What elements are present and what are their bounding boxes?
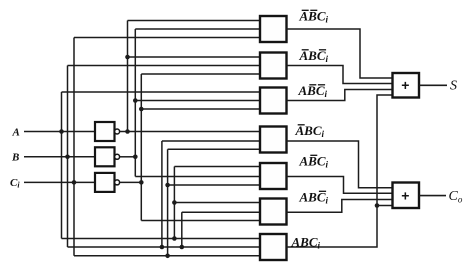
wire C upper branch to G1 bbox=[74, 37, 260, 39]
wire NOT-A output (A-bar row to G4) bbox=[120, 131, 260, 133]
node C-bar junction bbox=[139, 180, 144, 185]
wire B vertical bus bbox=[67, 66, 69, 248]
inverter U2 bubble bbox=[115, 154, 120, 159]
node A-bar junction on output bbox=[125, 129, 130, 134]
wire C vertical bus bbox=[73, 38, 75, 256]
node C riser tap G5 bbox=[165, 183, 170, 188]
wire G7 output ABCi shared riser bbox=[287, 95, 393, 247]
svg-text:ABCi: ABCi bbox=[291, 235, 321, 251]
AND gate G7 bbox=[260, 234, 287, 260]
wire G3 output to OR-S bbox=[287, 90, 393, 101]
node A tap bbox=[59, 129, 64, 134]
wire B upper branch to G2 bbox=[68, 65, 261, 67]
wire C lower branch to G7 bbox=[74, 255, 260, 257]
node B-bar tap G3 bbox=[133, 98, 138, 103]
AND gate G2 bbox=[260, 53, 287, 79]
wire A lower branch to G7 bbox=[62, 238, 261, 240]
inverter U2 bbox=[95, 147, 115, 166]
wire C-bar to G2 row bbox=[141, 73, 260, 75]
inverter U3 bubble bbox=[115, 180, 120, 185]
node C riser bottom bbox=[165, 254, 170, 259]
wire B lower branch to G7 bbox=[68, 246, 261, 248]
wire G6 output to OR-Co bbox=[287, 200, 393, 213]
wire NOT-C output bbox=[120, 181, 142, 183]
wire A upper branch to G3 bbox=[62, 91, 261, 93]
wire B-bar to G1 row bbox=[135, 28, 260, 30]
svg-text:+: + bbox=[401, 187, 409, 203]
OR gate Co (U9) bbox=[393, 183, 420, 209]
wire A to G6 row bbox=[174, 202, 260, 204]
inverter U3 bbox=[95, 173, 115, 192]
AND gate G1 bbox=[260, 16, 287, 42]
wire C riser (to G4,G5) bbox=[167, 149, 169, 256]
wire C-bar to G3 row bbox=[141, 108, 260, 110]
wire B-bar to G3 row bbox=[135, 100, 260, 102]
wire NOT-B output bbox=[120, 156, 136, 158]
node B-bar junction bbox=[133, 155, 138, 160]
inverter U1 bubble bbox=[115, 129, 120, 134]
AND gate G5 bbox=[260, 163, 287, 189]
node B riser1 bottom bbox=[160, 245, 165, 250]
node B riser2 bottom bbox=[180, 245, 185, 250]
svg-text:A: A bbox=[12, 126, 20, 138]
wire B riser 2 (to G6) bbox=[181, 212, 183, 247]
wire A vertical bus bbox=[61, 92, 63, 239]
node A-bar tap G2 bbox=[125, 55, 130, 60]
AND gate G3 bbox=[260, 88, 287, 114]
wire B riser 1 (to G4) bbox=[161, 141, 163, 247]
AND gate G6 bbox=[260, 199, 287, 225]
svg-text:S: S bbox=[450, 79, 457, 94]
wire G1 output (ABbarCbar... ABarBbarCi) to OR-S bbox=[287, 29, 393, 78]
svg-text:B: B bbox=[11, 151, 19, 163]
wire B to G4 row bbox=[162, 140, 260, 142]
node C-bar tap G3 bbox=[139, 107, 144, 112]
wire A to G5 row bbox=[174, 166, 260, 168]
node ABCi branch to OR-Co bbox=[375, 203, 380, 208]
wire A-bar to G2 row bbox=[128, 56, 261, 58]
wire output Co bbox=[419, 195, 446, 197]
wire output S bbox=[419, 84, 447, 86]
wire A-bar to G1 row bbox=[128, 20, 261, 22]
wire B-bar to G5 row bbox=[135, 176, 260, 178]
node Ci tap bbox=[72, 180, 77, 185]
wire C to G5 row bbox=[168, 184, 260, 186]
OR gate S (U8) bbox=[393, 73, 420, 98]
wire C to G4 row bbox=[168, 148, 260, 150]
wire A-bar riser bbox=[127, 21, 129, 132]
node A riser bottom bbox=[172, 236, 177, 241]
wire G5 output to OR-Co bbox=[287, 177, 393, 194]
wire B-bar riser bbox=[134, 29, 136, 177]
inverter U1 bbox=[95, 122, 115, 141]
wire G2 output to OR-S bbox=[287, 66, 393, 84]
node B tap bbox=[65, 155, 70, 160]
wire B to G6 row bbox=[182, 211, 260, 213]
wire ABCi into OR-Co bbox=[377, 205, 393, 207]
node A riser tap G6 bbox=[172, 200, 177, 205]
wire C-bar to G6 row bbox=[141, 220, 260, 222]
wire G4 output to OR-Co bbox=[287, 141, 393, 188]
wire input A bbox=[24, 131, 95, 133]
AND gate G4 bbox=[260, 127, 287, 153]
svg-text:+: + bbox=[401, 77, 409, 93]
wire input Ci bbox=[24, 181, 95, 183]
wire C-bar riser bbox=[140, 74, 142, 221]
wire input B bbox=[24, 156, 95, 158]
wire A riser (to G5,G6) bbox=[173, 167, 175, 239]
